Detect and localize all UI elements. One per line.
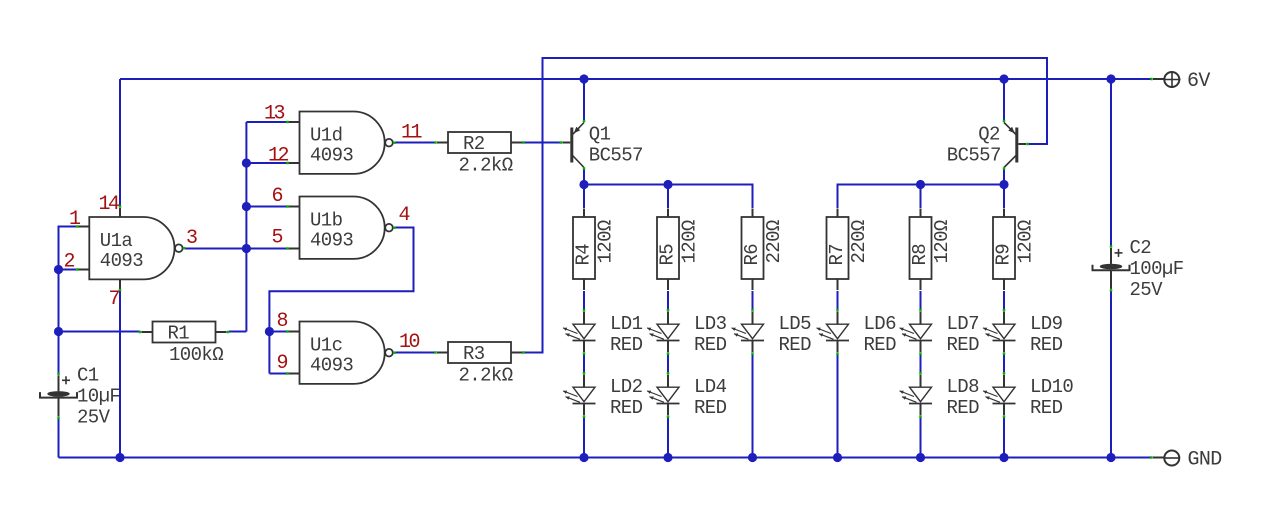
svg-text:10µF: 10µF [77, 385, 120, 407]
svg-text:RED: RED [864, 334, 897, 356]
wire U1a pin7 to GND rail [119, 290, 121, 458]
capacitor C1 10uF 25V electrolytic [40, 364, 120, 428]
resistor R6 220 [741, 209, 785, 291]
wire U1d pin12 stub [246, 162, 287, 164]
svg-text:100kΩ: 100kΩ [169, 344, 223, 366]
junction Q1 emitter on 6V rail [579, 74, 588, 83]
wire pin2 node down to C1 and R1 [58, 270, 60, 375]
nand gate U1b (4093) [286, 197, 395, 259]
pin number 8 [277, 310, 288, 333]
svg-text:LD1: LD1 [610, 313, 643, 335]
wire resistor at x668 to LED anode [667, 291, 669, 310]
svg-text:R1: R1 [168, 323, 190, 345]
wire branch to R4 [583, 185, 585, 209]
svg-text:8: 8 [277, 310, 288, 333]
resistor R3 2.2k [434, 342, 525, 387]
LED LD7 red [900, 309, 980, 356]
junction pin6 node [242, 202, 251, 211]
junction C2 on GND rail [1106, 453, 1115, 462]
wire resistor at x752.5 to LED anode [752, 291, 754, 310]
junction R8 node [916, 180, 925, 189]
svg-text:4093: 4093 [310, 354, 353, 376]
wire 6V rail down to C2 plus [1110, 79, 1112, 248]
resistor R9 120 [993, 209, 1037, 291]
pin number 7 [109, 288, 120, 311]
junction LD2 on GND rail [579, 453, 588, 462]
svg-text:RED: RED [610, 397, 643, 419]
svg-text:RED: RED [1030, 397, 1063, 419]
nand gate U1c (4093) [286, 322, 395, 384]
pin number 13 [264, 103, 285, 126]
svg-text:4093: 4093 [100, 250, 143, 272]
wire U1a pin2 stub [59, 269, 77, 271]
svg-text:4: 4 [399, 204, 410, 227]
junction LD10 on GND rail [999, 453, 1008, 462]
pin number 14 [99, 193, 120, 216]
svg-text:LD8: LD8 [947, 376, 980, 398]
resistor R7 220 [826, 209, 870, 291]
wire LED cathode col x752.5 to GND rail [752, 355, 754, 458]
wire LED link col x920.5 [920, 355, 922, 374]
transistor Q2 BC557 PNP [947, 120, 1029, 170]
junction pin3/pin5 node [242, 244, 251, 253]
junction LD4 on GND rail [663, 453, 672, 462]
svg-text:LD9: LD9 [1030, 313, 1063, 335]
svg-text:R6: R6 [741, 244, 763, 266]
junction LD6 on GND rail [833, 453, 842, 462]
svg-text:9: 9 [277, 352, 288, 375]
LED LD5 red [732, 309, 812, 356]
junction LD8 on GND rail [916, 453, 925, 462]
wire resistor at x920.5 to LED anode [920, 291, 922, 310]
wire Q1 collector down [583, 169, 585, 185]
wire U1a pin1 to pin2 net [59, 227, 77, 270]
svg-text:11: 11 [401, 122, 423, 145]
transistor Q1 BC557 PNP [560, 120, 643, 170]
LED LD4 red [647, 372, 727, 419]
wire GND bottom rail (net GND) [59, 457, 1153, 459]
svg-text:R7: R7 [826, 244, 848, 266]
svg-text:LD10: LD10 [1030, 376, 1073, 398]
svg-text:U1b: U1b [310, 210, 343, 232]
terminal 6V supply (net 6V) [1150, 70, 1210, 93]
svg-text:13: 13 [264, 103, 285, 126]
wire U1b pin4 feedback to U1c inputs [269, 228, 413, 332]
svg-text:R3: R3 [463, 343, 485, 365]
svg-text:120Ω: 120Ω [1015, 220, 1037, 263]
svg-text:RED: RED [947, 397, 980, 419]
svg-text:4093: 4093 [310, 229, 353, 251]
wire LED cathode col x584 to GND rail [583, 418, 585, 458]
wire Q2 emitter to 6V rail [1003, 79, 1005, 120]
wire U1c pin8 to pin9 [268, 332, 270, 374]
svg-text:RED: RED [610, 334, 643, 356]
svg-text:RED: RED [694, 334, 727, 356]
LED LD8 red [900, 372, 980, 419]
wire Q1 collector bus to R4 R5 R6 [584, 185, 753, 209]
junction R5 node [663, 180, 672, 189]
junction Q1 collector / R4 [579, 180, 588, 189]
wire U1c pin10 output to R3 [394, 352, 436, 354]
svg-text:25V: 25V [77, 406, 111, 428]
svg-text:2.2kΩ: 2.2kΩ [459, 155, 513, 177]
wire 6V supply rail (net 6V) [120, 78, 1152, 80]
svg-text:120Ω: 120Ω [931, 220, 953, 263]
svg-text:R9: R9 [993, 244, 1015, 266]
svg-text:6: 6 [272, 185, 283, 208]
svg-text:RED: RED [947, 334, 980, 356]
svg-text:BC557: BC557 [947, 145, 1001, 167]
capacitor C2 100uF 25V electrolytic [1093, 237, 1184, 301]
terminal GND (net GND) [1150, 449, 1221, 472]
svg-text:6V: 6V [1187, 70, 1210, 93]
svg-text:C1: C1 [77, 364, 99, 386]
wire LED link col x668 [667, 355, 669, 374]
svg-text:GND: GND [1188, 449, 1222, 472]
svg-text:R4: R4 [573, 244, 595, 266]
svg-text:LD5: LD5 [779, 313, 812, 335]
svg-text:2.2kΩ: 2.2kΩ [459, 365, 513, 387]
svg-text:3: 3 [186, 227, 197, 250]
resistor R4 120 [573, 209, 617, 291]
LED LD3 red [647, 309, 727, 356]
wire C1 minus to ground rail [58, 418, 60, 458]
svg-text:Q2: Q2 [978, 124, 1000, 146]
junction LD5 on GND rail [748, 453, 757, 462]
wire LED cathode col x837.5 to GND rail [837, 355, 839, 458]
svg-text:U1d: U1d [310, 125, 342, 147]
wire U1a pin3 output [185, 248, 246, 250]
wire R3 output to Q2 base (net over top) [521, 58, 1048, 353]
junction U1a pin1/pin2 node [54, 265, 63, 274]
svg-text:Q1: Q1 [589, 124, 611, 146]
wire U1a pin14 to 6V rail [119, 79, 121, 207]
LED LD2 red [563, 372, 643, 419]
svg-text:25V: 25V [1130, 279, 1164, 301]
svg-text:U1a: U1a [100, 230, 133, 252]
wire Q2 collector down [1003, 169, 1005, 185]
svg-text:7: 7 [109, 288, 120, 311]
svg-text:100µF: 100µF [1130, 258, 1184, 280]
junction pin7 on GND rail [115, 453, 124, 462]
svg-text:LD2: LD2 [610, 376, 643, 398]
wire resistor at x837.5 to LED anode [837, 291, 839, 310]
wire LED link col x1004 [1003, 355, 1005, 374]
wire R1 right to oscillator node [229, 331, 246, 333]
svg-text:RED: RED [779, 334, 812, 356]
wire LED link col x584 [583, 355, 585, 374]
LED LD10 red [983, 372, 1073, 419]
nand gate U1a (4093) [76, 217, 185, 279]
svg-text:LD3: LD3 [694, 313, 727, 335]
junction Q2 collector / R9 [999, 180, 1008, 189]
svg-text:12: 12 [268, 145, 289, 168]
wire Q2 collector bus to R7 R8 R9 [838, 185, 1005, 209]
wire node to R1 left [59, 331, 141, 333]
svg-text:BC557: BC557 [589, 145, 643, 167]
svg-text:RED: RED [1030, 334, 1063, 356]
wire LED cathode col x920.5 to GND rail [920, 418, 922, 458]
wire Q1 emitter to 6V rail [583, 79, 585, 120]
pin number 3 [186, 227, 197, 250]
wire branch to R8 [920, 185, 922, 209]
wire U1d pin11 output to R2 [394, 142, 436, 144]
pin number 1 [69, 208, 81, 231]
wire U1b pin5 stub [246, 248, 287, 250]
svg-text:RED: RED [694, 397, 727, 419]
pin number 10 [399, 331, 420, 354]
LED LD9 red [983, 309, 1063, 356]
svg-text:5: 5 [272, 227, 283, 250]
svg-text:120Ω: 120Ω [595, 220, 617, 263]
wire R2 right to Q1 base [521, 142, 561, 144]
resistor R2 2.2k [434, 132, 525, 177]
LED LD1 red [563, 309, 643, 356]
svg-text:C2: C2 [1130, 237, 1152, 259]
svg-text:LD4: LD4 [694, 376, 727, 398]
resistor R5 120 [657, 209, 701, 291]
wire C2 minus to GND rail [1110, 290, 1112, 458]
junction Q2 emitter on 6V rail [999, 74, 1008, 83]
svg-text:U1c: U1c [310, 335, 343, 357]
junction C1/R1 node [54, 327, 63, 336]
wire LED cathode col x668 to GND rail [667, 418, 669, 458]
junction C2 on 6V rail [1106, 74, 1115, 83]
LED LD6 red [817, 309, 897, 356]
svg-text:10: 10 [399, 331, 420, 354]
wire resistor at x584 to LED anode [583, 291, 585, 310]
svg-text:120Ω: 120Ω [679, 220, 701, 263]
svg-text:220Ω: 220Ω [763, 220, 785, 263]
wire U1c pin9 stub [269, 373, 287, 375]
svg-text:R8: R8 [909, 244, 931, 266]
nand gate U1d (4093) [286, 112, 395, 174]
U1a pin7 stub [119, 280, 122, 292]
wire U1d pin13 stub [246, 121, 287, 123]
svg-text:LD6: LD6 [864, 313, 897, 335]
svg-text:14: 14 [99, 193, 120, 216]
wire LED cathode col x1004 to GND rail [1003, 418, 1005, 458]
svg-text:R2: R2 [463, 133, 485, 155]
resistor R8 120 [909, 209, 953, 291]
svg-text:LD7: LD7 [947, 313, 979, 335]
U1a pin14 stub [119, 205, 122, 217]
svg-text:220Ω: 220Ω [848, 220, 870, 263]
wire U1c pin8 stub [269, 331, 287, 333]
wire U1b pin6 stub [246, 206, 287, 208]
pin number 2 [64, 251, 75, 274]
pin number 6 [272, 185, 283, 208]
pin number 5 [272, 227, 283, 250]
pin number 4 [399, 204, 410, 227]
pin number 9 [277, 352, 288, 375]
svg-text:2: 2 [64, 251, 75, 274]
resistor R1 100k [139, 322, 230, 367]
pin number 11 [401, 122, 423, 145]
pin number 12 [268, 145, 289, 168]
junction pin12 node [242, 158, 251, 167]
wire oscillator node vertical (pins 13/12/6/5/3/8) [245, 122, 247, 332]
svg-text:R5: R5 [657, 244, 679, 266]
junction pin8 node [265, 327, 274, 336]
wire branch to R5 [667, 185, 669, 209]
wire resistor at x1004 to LED anode [1003, 291, 1005, 310]
svg-text:4093: 4093 [310, 144, 353, 166]
wire branch to R9 [1003, 185, 1005, 209]
